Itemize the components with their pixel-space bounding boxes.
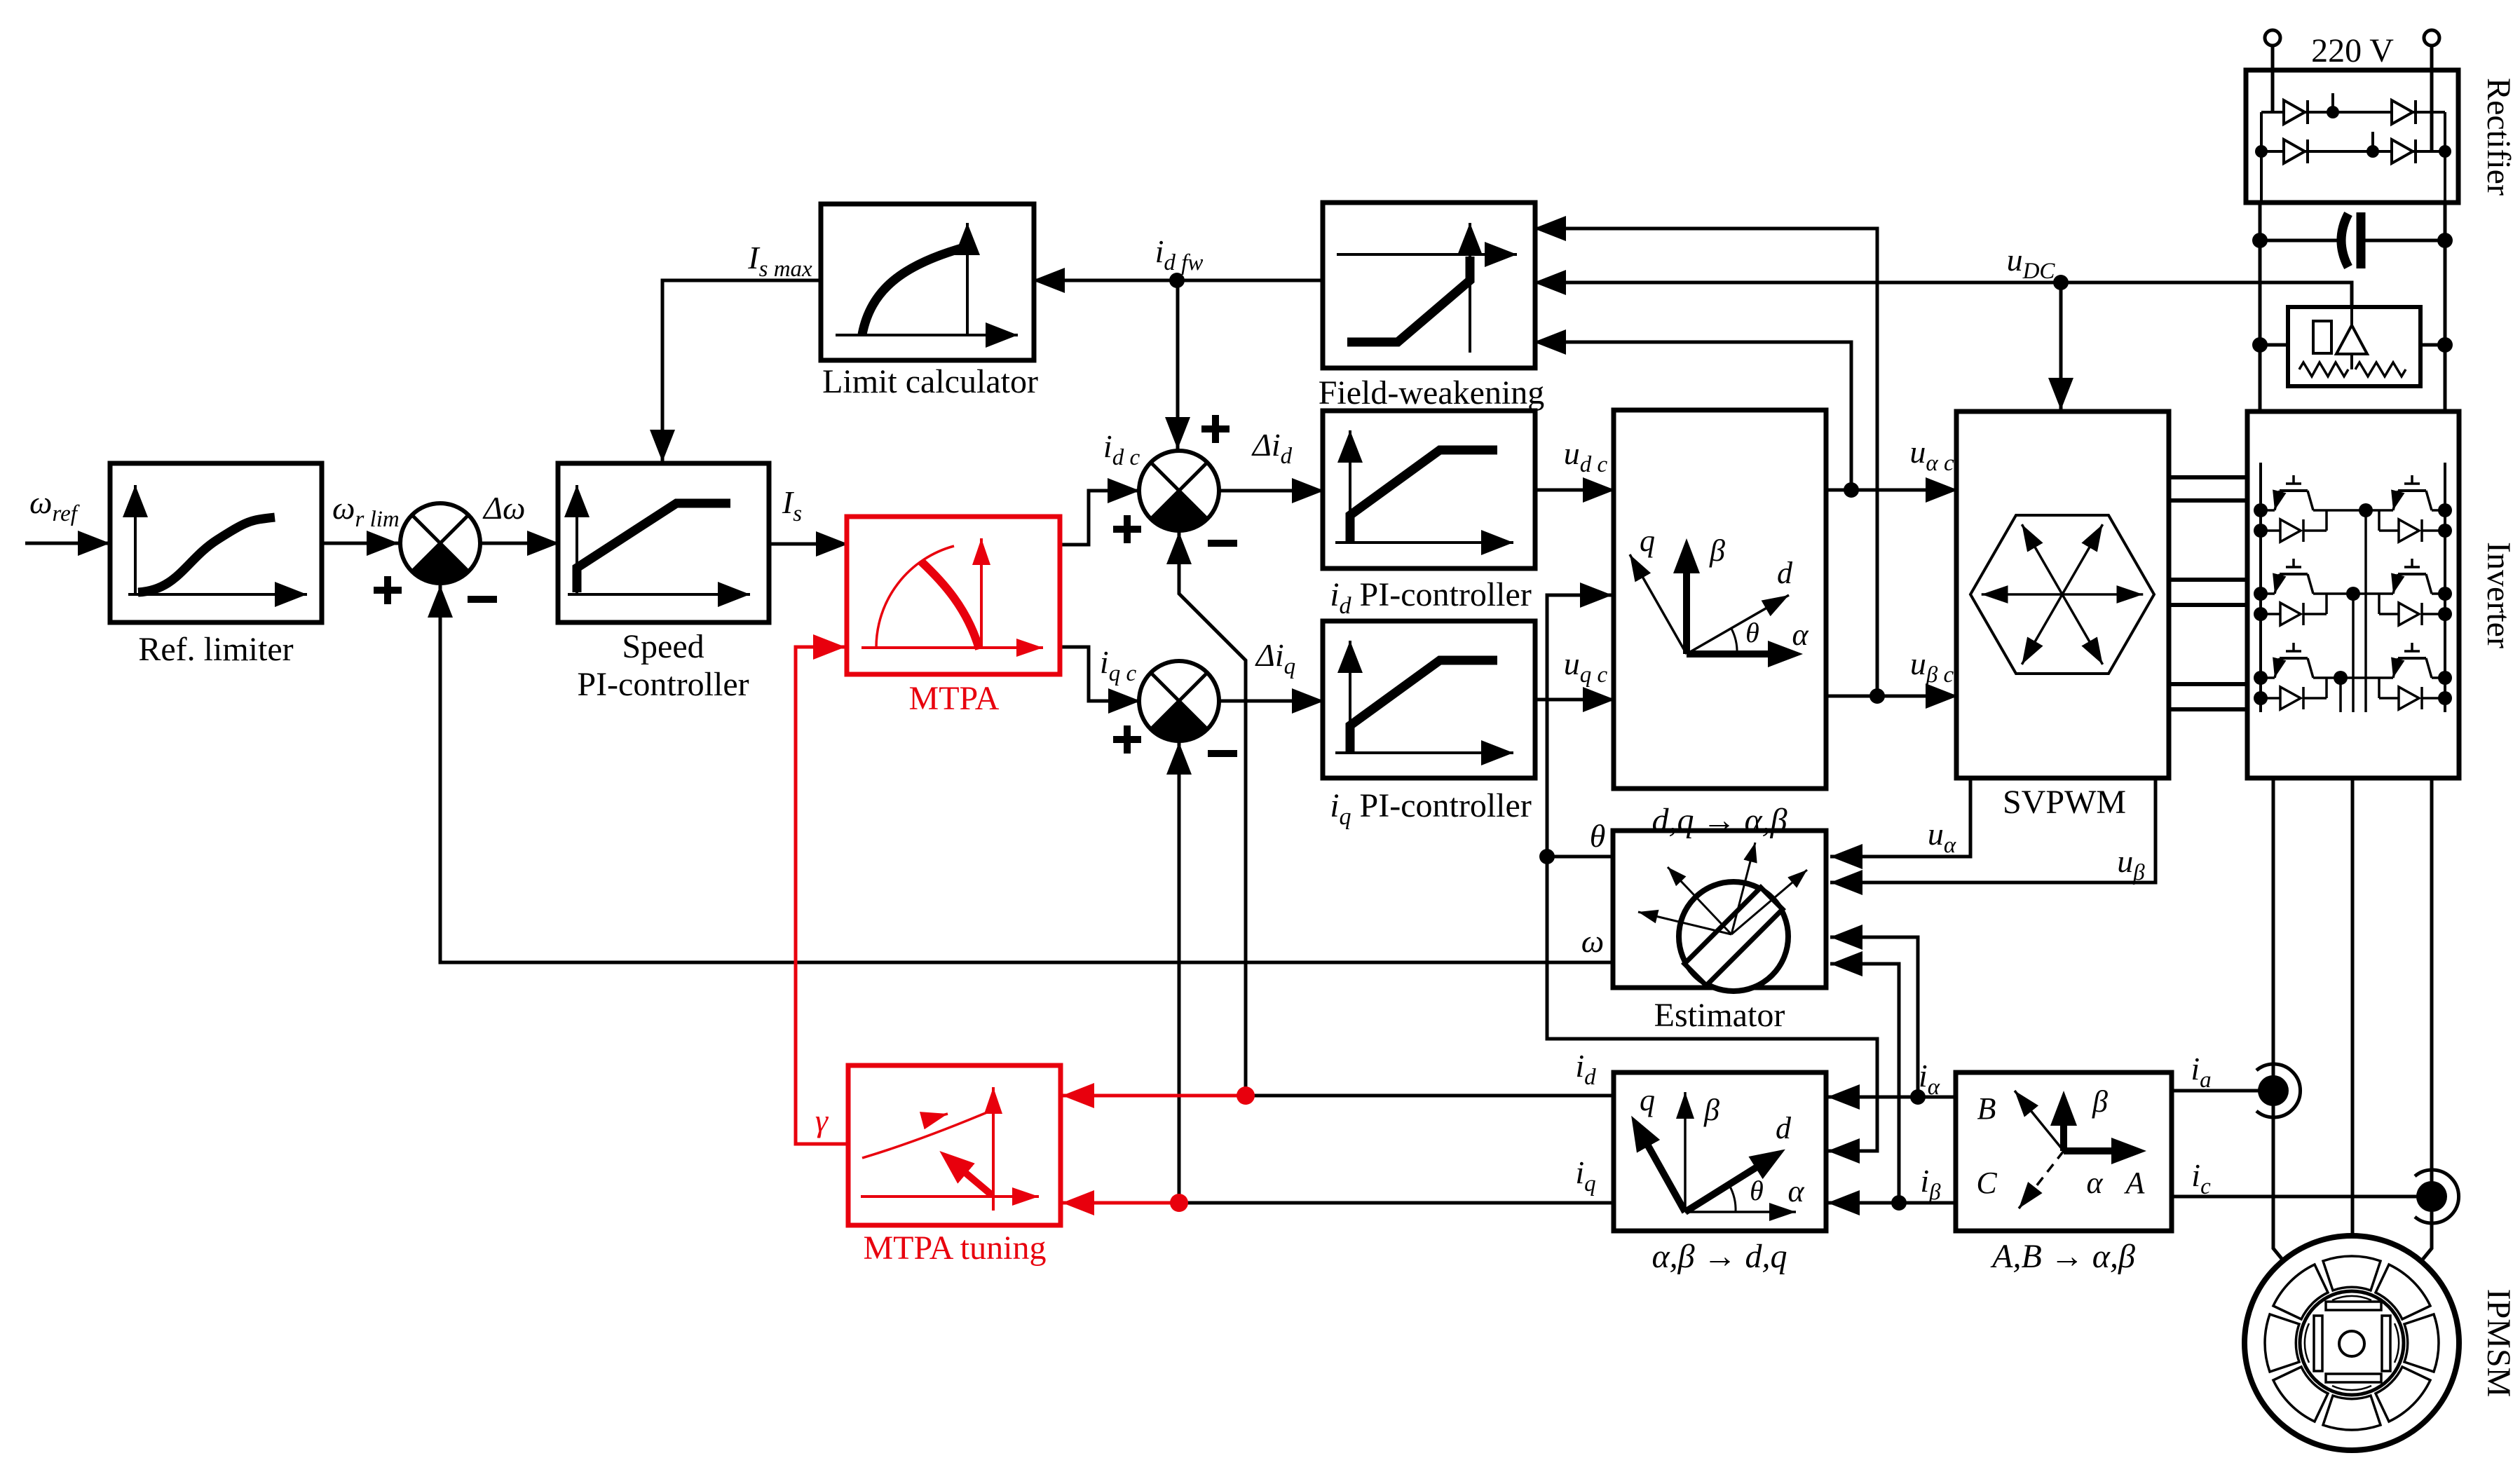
- svg-text:α: α: [2086, 1166, 2103, 1200]
- svg-text:Inverter: Inverter: [2480, 542, 2517, 648]
- svg-text:id PI-controller: id PI-controller: [1330, 576, 1532, 619]
- svg-text:d,q → α,β: d,q → α,β: [1651, 802, 1787, 839]
- svg-text:θ: θ: [1750, 1175, 1764, 1206]
- svg-text:γ: γ: [815, 1103, 829, 1138]
- svg-text:Field-weakening: Field-weakening: [1319, 374, 1545, 411]
- svg-text:Δω: Δω: [482, 490, 525, 526]
- svg-text:MTPA: MTPA: [909, 680, 1000, 717]
- svg-text:Rectifier: Rectifier: [2480, 78, 2517, 196]
- svg-text:α,β → d,q: α,β → d,q: [1651, 1238, 1787, 1275]
- svg-text:Speed: Speed: [622, 628, 704, 665]
- svg-text:d: d: [1777, 556, 1793, 590]
- svg-text:Limit calculator: Limit calculator: [822, 363, 1038, 400]
- svg-text:PI-controller: PI-controller: [577, 666, 749, 703]
- svg-text:iq PI-controller: iq PI-controller: [1330, 787, 1532, 830]
- svg-text:ω: ω: [1581, 923, 1604, 959]
- svg-text:q: q: [1640, 524, 1655, 558]
- svg-text:q: q: [1640, 1083, 1655, 1117]
- svg-text:θ: θ: [1590, 818, 1606, 854]
- svg-text:SVPWM: SVPWM: [2003, 784, 2126, 821]
- svg-text:B: B: [1977, 1091, 1996, 1126]
- svg-text:α: α: [1792, 618, 1809, 652]
- svg-text:Estimator: Estimator: [1654, 997, 1785, 1034]
- svg-text:A,B → α,β: A,B → α,β: [1990, 1238, 2135, 1275]
- svg-text:220 V: 220 V: [2311, 32, 2394, 69]
- svg-text:MTPA tuning: MTPA tuning: [864, 1229, 1047, 1267]
- svg-text:Ref. limiter: Ref. limiter: [138, 631, 293, 668]
- svg-text:β: β: [2092, 1084, 2108, 1119]
- svg-text:β: β: [1703, 1093, 1719, 1127]
- svg-text:A: A: [2124, 1166, 2146, 1200]
- svg-text:IPMSM: IPMSM: [2480, 1289, 2517, 1398]
- svg-text:θ: θ: [1745, 617, 1759, 648]
- svg-text:β: β: [1709, 533, 1725, 568]
- svg-text:C: C: [1976, 1166, 1997, 1200]
- svg-text:d: d: [1776, 1111, 1792, 1145]
- svg-text:α: α: [1787, 1174, 1804, 1208]
